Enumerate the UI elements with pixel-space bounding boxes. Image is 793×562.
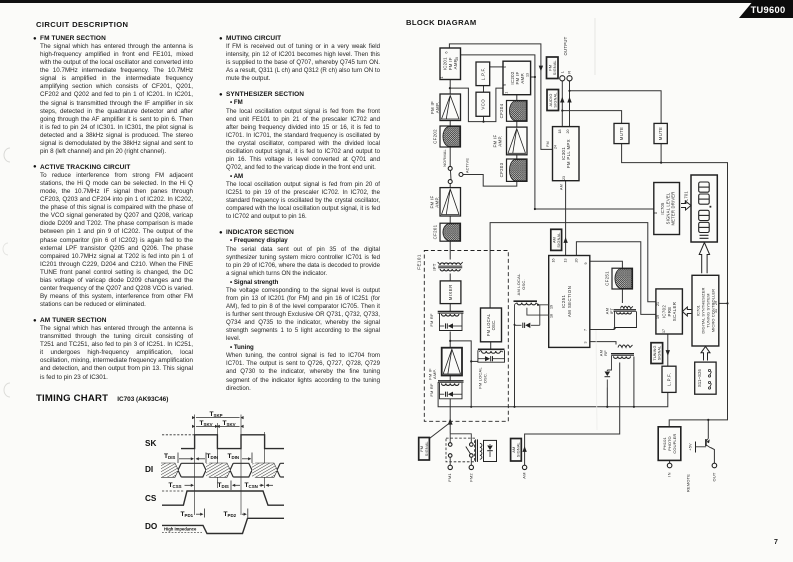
junction: AM LO varicap at bus xyxy=(513,406,515,408)
svg-text:9: 9 xyxy=(584,263,588,265)
wire: PH101 to IN terminal xyxy=(669,460,671,463)
wire: IC201 pin 1 junction to IC202 pin 9 U-route xyxy=(450,88,503,122)
svg-text:NORMAL: NORMAL xyxy=(442,148,447,166)
TUNING SIGNAL tag box xyxy=(651,343,663,364)
wire: IC251 pin 7 to AM IFT xyxy=(590,329,615,331)
svg-text:R: R xyxy=(567,71,572,74)
svg-text:VCO: VCO xyxy=(480,99,485,110)
wire: CF203 to FM IF AMP Q203 xyxy=(516,155,518,159)
svg-text:TDIN: TDIN xyxy=(228,453,240,460)
wire: mixer injection to FM local osc tank xyxy=(450,341,471,407)
svg-text:21: 21 xyxy=(656,302,660,306)
wire: MIXER to FM RF 1 xyxy=(449,304,451,311)
hollow arrow IC701 to IC702 xyxy=(682,307,691,316)
S11~S26 key switch block xyxy=(695,362,716,394)
svg-text:FM RF: FM RF xyxy=(429,313,434,327)
junction: meter bus at IC202 pin 13 xyxy=(534,76,536,78)
amplifier Q202 FM IF AMP xyxy=(440,94,461,121)
ceramic filter CF202 xyxy=(440,126,461,147)
svg-text:MIXER: MIXER xyxy=(448,284,453,300)
svg-text:24: 24 xyxy=(553,145,557,149)
svg-text:6: 6 xyxy=(503,66,507,68)
timing chart: T_DIS arrow xyxy=(177,453,179,464)
front end FE101 dashed boundary xyxy=(424,251,508,422)
svg-text:CF202: CF202 xyxy=(433,129,438,144)
svg-text:REMOTE: REMOTE xyxy=(685,474,690,492)
svg-text:MUTE: MUTE xyxy=(619,127,624,140)
wire: CF202 to switch normal contact xyxy=(449,147,451,166)
timing chart: measurement guide line at SK rising edge 1 xyxy=(194,415,196,516)
svg-text:FM2: FM2 xyxy=(468,473,473,482)
FL701 7-segment digit 3 xyxy=(699,210,710,220)
wire: FM IF AMP Q201 to CF201 xyxy=(449,216,451,223)
key switch symbols xyxy=(708,369,710,371)
svg-text:OSC.: OSC. xyxy=(482,373,487,384)
wire: FM local osc output to IC702 pin 21 xyxy=(490,223,656,308)
svg-text:FM: FM xyxy=(548,65,552,71)
timing chart: T_CSS arrow xyxy=(185,484,194,486)
VCO xyxy=(476,92,490,116)
wire: IC201 pin 13 signal meter bus to IC705 pin 8 xyxy=(461,55,654,209)
OUT terminal xyxy=(712,463,717,468)
wire: AM RF right leg to bus xyxy=(633,357,635,407)
svg-text:AUDIO: AUDIO xyxy=(549,93,553,106)
svg-text:17: 17 xyxy=(662,329,666,333)
svg-text:1: 1 xyxy=(440,77,444,79)
wire: IC201 to FM IF AMP Q202 xyxy=(449,80,451,95)
junction: R mute tap xyxy=(568,90,570,92)
timing chart: measurement guide line at SK falling edge 2 xyxy=(264,432,266,488)
svg-text:SIGNAL: SIGNAL xyxy=(425,441,429,456)
svg-text:SCALER: SCALER xyxy=(672,302,677,321)
junction: remote line at IC701 xyxy=(726,302,728,304)
svg-text:OUT: OUT xyxy=(711,472,716,481)
top rule xyxy=(0,0,756,3)
FL701 digit 1 segments xyxy=(700,234,709,236)
wire: transistor collector to remote line xyxy=(707,420,709,439)
svg-text:FM: FM xyxy=(420,446,424,452)
wire: IC201 pin 6 FM composite to IC301 pin 24 xyxy=(449,44,552,149)
wire: transistor emitter to OUT terminal xyxy=(711,448,715,464)
wire: CF201 to IFT xyxy=(449,241,451,259)
timing chart: T_PD2 arrow xyxy=(242,513,246,515)
svg-text:ACTIVE: ACTIVE xyxy=(465,158,470,173)
svg-text:1: 1 xyxy=(505,92,509,94)
svg-text:FM: FM xyxy=(545,141,550,147)
signal-flow arrow on FM composite wire xyxy=(539,66,543,72)
svg-text:29: 29 xyxy=(714,301,718,305)
wire: AM LO varicap to tuning bus xyxy=(514,325,516,407)
timing chart: measurement guide line at SK falling edge 1 xyxy=(216,423,218,488)
wire: MUTE 2 to common xyxy=(660,144,662,163)
wire: IC202 pin 13 to meter bus xyxy=(531,76,535,78)
wire: antenna diagonal to FM SIGNAL tag xyxy=(429,423,450,439)
FM2 terminal xyxy=(469,465,473,469)
amplifier Q201 FM IF AMP xyxy=(440,188,461,216)
svg-text:TUNING: TUNING xyxy=(653,345,657,360)
IFT transformer xyxy=(440,263,460,265)
balun diode xyxy=(487,450,493,452)
IN terminal xyxy=(667,463,672,468)
junction: meter bus corner xyxy=(534,208,536,210)
svg-text:SIGNAL: SIGNAL xyxy=(517,442,521,457)
ceramic filter CF204 xyxy=(507,101,528,122)
MUTE block 2 xyxy=(654,123,667,143)
svg-text:FL701: FL701 xyxy=(684,191,689,204)
faint scanner crease xyxy=(594,18,596,75)
svg-text:19: 19 xyxy=(656,315,660,319)
svg-text:TPD2: TPD2 xyxy=(224,511,237,518)
timing chart: T_CSN arrow xyxy=(260,484,264,486)
svg-text:SIGNAL: SIGNAL xyxy=(557,232,561,247)
svg-text:3: 3 xyxy=(584,342,588,344)
IC201 FM IF amplifier xyxy=(440,48,461,80)
wire: FM local osc box to tank xyxy=(490,342,492,349)
wire: VCO output to U-route xyxy=(483,116,485,121)
AUDIO SIGNAL tag box xyxy=(547,90,559,111)
AM RF varicap diode xyxy=(605,376,611,378)
wire: AM RF left leg to bus xyxy=(606,388,608,407)
low pass filter L.P.F. (tuning) xyxy=(662,366,676,392)
svg-text:13: 13 xyxy=(564,259,568,263)
FL701 7-segment digit 2 xyxy=(699,194,710,204)
timing chart: measurement guide line at SK rising edge 2 xyxy=(240,415,242,516)
wire: R channel to MUTE 2 xyxy=(570,91,662,124)
svg-text:TCSN: TCSN xyxy=(245,482,258,489)
transistor Q remote xyxy=(705,439,707,446)
faint margin marks xyxy=(4,148,10,162)
IC202 FM IF amplifier (active tracking) xyxy=(503,61,531,94)
hollow arrow S11-S26 to IC701 xyxy=(701,347,710,361)
svg-text:AMP.: AMP. xyxy=(435,102,440,113)
svg-text:IFT: IFT xyxy=(432,263,437,270)
timing chart: SK clock waveform xyxy=(162,434,195,436)
wire: CF204 to IC202 pin 1 xyxy=(516,95,518,101)
timing chart: T_SKV dimension arrows xyxy=(196,425,216,427)
svg-text:IC301: IC301 xyxy=(561,147,566,160)
svg-text:AM: AM xyxy=(552,237,556,243)
R output terminal xyxy=(567,76,572,81)
svg-text:OUTPUT: OUTPUT xyxy=(563,36,568,55)
svg-text:IFT: IFT xyxy=(609,307,614,314)
wire: FM IF AMP Q203 to CF204 xyxy=(516,121,518,127)
IC702 prescaler xyxy=(656,289,683,334)
svg-text:TDIS: TDIS xyxy=(218,482,229,489)
FM RF tuned circuit 1 with varicap xyxy=(438,311,464,313)
svg-text:AMP.: AMP. xyxy=(498,135,503,146)
IC705 signal level meter driver xyxy=(654,183,680,235)
svg-text:13: 13 xyxy=(525,73,529,77)
timing chart: T_SKP dimension arrow xyxy=(196,417,240,419)
timing chart: CS chip-select waveform xyxy=(162,490,184,492)
wire: IC301 pin 23 to IC251 pin 13 AM detector xyxy=(565,181,567,256)
wire: IC251 pin 9 to CF251 xyxy=(590,261,623,268)
svg-text:COUPLER: COUPLER xyxy=(672,434,677,454)
svg-text:CS: CS xyxy=(145,494,157,503)
signal-flow arrow AM antenna xyxy=(522,446,526,452)
wire: LPF to IC202 pin 6 xyxy=(490,66,503,68)
svg-text:20: 20 xyxy=(574,259,578,263)
svg-text:OSC.: OSC. xyxy=(491,319,496,330)
svg-text:SIGNAL: SIGNAL xyxy=(657,346,661,361)
svg-text:AM: AM xyxy=(522,472,527,478)
svg-text:18: 18 xyxy=(558,130,562,134)
svg-text:METER DRIVER: METER DRIVER xyxy=(671,191,676,225)
wire: tank left side tap xyxy=(471,360,478,362)
AM SIGNAL tag box (detector) xyxy=(551,229,562,250)
junction: AM IFT bottom xyxy=(614,327,616,329)
FM local osc tank coil xyxy=(478,348,505,350)
AM RF transformer xyxy=(618,345,633,348)
FL701 7-segment digit 1 xyxy=(699,182,710,192)
wire: IC701 pin 29 to remote line xyxy=(719,302,728,304)
svg-text:18: 18 xyxy=(550,314,554,318)
timing chart: DI data waveform hatched bus xyxy=(161,463,280,477)
junction: L mute tap xyxy=(561,110,563,112)
svg-text:L.P.F.: L.P.F. xyxy=(480,67,485,80)
svg-text:TDIN: TDIN xyxy=(207,453,219,460)
svg-text:FE101: FE101 xyxy=(417,254,422,270)
AM local oscillator coil xyxy=(514,300,538,302)
signal-flow arrow tuning voltage xyxy=(666,350,670,356)
svg-text:OSC.: OSC. xyxy=(521,279,526,290)
wire: FM IF AMP to CF202 xyxy=(449,121,451,127)
ceramic filter CF251 xyxy=(612,268,633,289)
FM SIGNAL tag box (antenna) xyxy=(419,438,430,461)
svg-text:AMP.: AMP. xyxy=(435,196,440,207)
FM local osc varicap xyxy=(490,356,492,361)
svg-text:TDIS: TDIS xyxy=(164,453,175,460)
hollow arrow IC705 to FL701 xyxy=(681,201,691,210)
AM terminal xyxy=(522,465,526,469)
IC301 FM PLL MPX demodulator xyxy=(553,127,580,181)
timing chart: T_DIN arrow 1 xyxy=(205,453,207,464)
svg-text:IC251: IC251 xyxy=(561,294,566,308)
svg-text:TCSS: TCSS xyxy=(169,482,182,489)
timing chart: T_DIS arrow on CS row xyxy=(230,481,232,491)
+5V supply xyxy=(695,442,697,453)
junction: mute common xyxy=(660,162,662,164)
wire: FM RF 2 to antenna node xyxy=(449,399,451,434)
page number xyxy=(774,539,778,546)
svg-text:FM RF: FM RF xyxy=(429,383,434,397)
svg-text:High Impedance: High Impedance xyxy=(164,526,197,531)
wire: CF251 to AM IFT xyxy=(621,289,623,303)
svg-text:TPD1: TPD1 xyxy=(181,511,194,518)
hollow arrow IC701 to FL701 xyxy=(699,243,709,274)
wire: IC702 pin 17 to LPF xyxy=(667,334,669,366)
svg-text:31: 31 xyxy=(714,309,718,313)
svg-text:L: L xyxy=(559,70,564,73)
signal-flow arrow AM detector wire xyxy=(563,237,567,243)
antenna balun transformer xyxy=(475,439,477,462)
svg-text:+5V: +5V xyxy=(688,443,693,451)
timing chart: T_DIN arrow 2 xyxy=(251,453,253,464)
wire: contacts to FM terminals xyxy=(449,457,451,465)
FM2 selector contacts and blade xyxy=(470,443,474,447)
svg-text:DO: DO xyxy=(145,522,158,531)
antenna junction arrow xyxy=(448,418,453,424)
svg-text:FM PLL MPX: FM PLL MPX xyxy=(566,139,571,168)
wire: FM IF AMP front to FM RF 2 xyxy=(449,376,451,381)
svg-text:SIGNAL: SIGNAL xyxy=(553,92,557,107)
FL701 7-segment digit 4 xyxy=(699,222,710,232)
wire: L terminal to IC301 pin 18 xyxy=(561,81,563,127)
junction: VCO output node xyxy=(482,121,484,123)
svg-text:8: 8 xyxy=(654,212,658,214)
wire: L channel to MUTE 1 xyxy=(562,111,621,124)
svg-text:AMP.: AMP. xyxy=(432,369,437,379)
FM LOCAL OSC block xyxy=(481,308,502,342)
svg-text:PRE: PRE xyxy=(667,307,672,317)
signal-flow arrows on L/R audio wires xyxy=(560,97,564,103)
svg-text:L.P.F.: L.P.F. xyxy=(666,373,671,386)
FL701 frequency display xyxy=(691,175,717,242)
junction: IC201 pin 1 node xyxy=(449,87,451,89)
AM LO varicap diode xyxy=(514,304,516,325)
svg-text:AM: AM xyxy=(558,184,563,190)
svg-text:FM1: FM1 xyxy=(447,473,452,482)
PH101 photo coupler xyxy=(658,427,681,461)
wire: AM RF left leg xyxy=(607,356,611,370)
IC251 AM tuner section xyxy=(549,256,590,348)
L output terminal xyxy=(560,76,565,81)
svg-text:19: 19 xyxy=(550,305,554,309)
wire: IC251 pin 20 AM local osc to IC702 pin 19 xyxy=(576,242,656,315)
wire: R terminal to IC301 pin 20 xyxy=(569,81,571,127)
svg-text:RF: RF xyxy=(603,350,608,356)
FM antenna selector dashed box xyxy=(446,438,475,462)
wire: IFT to MIXER xyxy=(449,274,451,281)
svg-text:CF204: CF204 xyxy=(499,103,504,118)
junction: FM local osc tank to tuning bus xyxy=(470,406,472,408)
wire: FM RF 1 to FM IF AMP front xyxy=(449,332,451,348)
svg-text:AM SECTION: AM SECTION xyxy=(567,286,572,317)
svg-text:CF251: CF251 xyxy=(605,271,610,286)
FM1 selector contacts xyxy=(448,443,452,447)
MUTE block 1 xyxy=(614,123,629,143)
svg-text:13: 13 xyxy=(455,57,459,61)
AM IFT transformer xyxy=(621,306,633,308)
wire: AM antenna line xyxy=(525,363,620,466)
svg-text:9: 9 xyxy=(503,84,507,86)
wire: IC251 pin 3 to AM RF xyxy=(590,342,616,345)
svg-text:S11~S26: S11~S26 xyxy=(697,368,702,387)
wire: active contact to CF203 xyxy=(463,175,517,187)
TU9600 model banner xyxy=(700,0,793,20)
svg-text:16: 16 xyxy=(552,259,556,263)
svg-text:CF201: CF201 xyxy=(432,224,437,239)
svg-text:IC702: IC702 xyxy=(661,305,666,318)
low pass filter L.P.F. xyxy=(476,62,490,86)
svg-text:6: 6 xyxy=(444,52,448,54)
MIXER xyxy=(440,281,461,304)
svg-text:20: 20 xyxy=(566,130,570,134)
wire: AM RF secondary legs xyxy=(606,370,608,371)
svg-text:SK: SK xyxy=(145,439,156,448)
ceramic filter CF203 xyxy=(507,159,528,181)
svg-text:CF203: CF203 xyxy=(499,162,504,177)
wire: AM LO coil to IC251 pin 19 xyxy=(538,304,549,306)
FM local osc tank enclosure xyxy=(478,350,505,362)
wire: LPF to VCO xyxy=(483,86,485,93)
IC701 digital synthesizer tuning system micro controller xyxy=(692,275,719,346)
svg-text:MUTE: MUTE xyxy=(658,127,663,140)
svg-text:SIGNAL: SIGNAL xyxy=(553,60,557,75)
timing chart: DO output waveform xyxy=(162,518,284,533)
AM SIGNAL tag box (antenna) xyxy=(511,439,522,462)
wire: varicap tuning bus xyxy=(438,382,668,407)
FL701 decimal point xyxy=(710,206,712,208)
wire: switch to FM IF AMP Q201 xyxy=(449,184,451,188)
timing chart: T_PD1 arrow xyxy=(196,513,202,515)
wire: MUTE commons to remote control line xyxy=(622,144,728,427)
svg-text:DI: DI xyxy=(145,465,153,474)
ceramic filter CF201 xyxy=(440,223,461,241)
FM SIGNAL tag box xyxy=(547,57,559,79)
wire: AM LO tap to IC251 pin 18 xyxy=(527,308,549,315)
wire: antenna to FM1/FM2 contacts xyxy=(450,434,471,443)
svg-text:AM: AM xyxy=(512,447,516,453)
junction: photocoupler / transistor node xyxy=(707,419,709,421)
normal/active selector switch xyxy=(449,165,451,167)
amplifier Q203 FM IF AMP xyxy=(507,127,528,155)
svg-text:23: 23 xyxy=(562,176,566,180)
svg-text:TSKP: TSKP xyxy=(210,411,223,418)
amplifier FM RF front-end xyxy=(442,348,462,376)
svg-text:IN: IN xyxy=(667,472,672,476)
FM1 terminal xyxy=(448,465,452,469)
FM RF tuned circuit 2 with varicap xyxy=(438,380,464,382)
svg-text:7: 7 xyxy=(584,329,588,331)
